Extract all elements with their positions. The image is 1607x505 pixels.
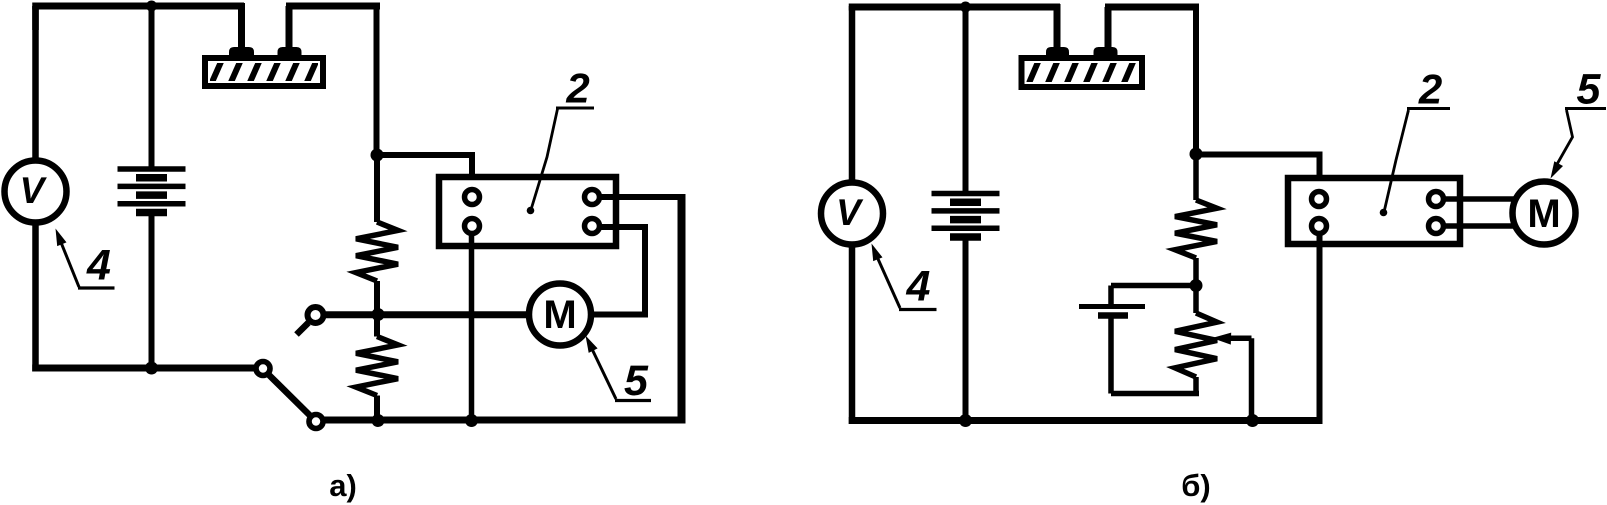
- svg-text:а): а): [329, 468, 357, 503]
- motor M (5), right: [1513, 182, 1576, 245]
- resistor R2 (lower, left circuit): [356, 315, 398, 421]
- junction: node at main vertical top: [371, 149, 384, 162]
- terminal block 2 (left circuit): [439, 177, 616, 246]
- label 5 leader with arrow (right): [1551, 109, 1607, 179]
- svg-text:4: 4: [86, 242, 111, 290]
- wire: block 2 lower-left pin to bottom bus (b): [1317, 232, 1323, 421]
- resistor R1 (upper, left circuit): [356, 155, 398, 315]
- wires: block 2 right pins to motor (b): [1442, 199, 1517, 226]
- junction: wiper wire on bottom bus: [1246, 414, 1259, 427]
- junction: R2 bottom on bottom bus: [372, 414, 385, 427]
- voltmeter PV (4), right: [821, 6, 883, 424]
- label 2 leader (left): [527, 108, 594, 214]
- junction: top bus / battery (right): [960, 2, 971, 13]
- label 2 leader (right): [1380, 109, 1450, 217]
- junction: bottom bus / battery (right): [959, 414, 972, 427]
- voltmeter PV (4), left: [5, 6, 67, 372]
- heating element 1 (hatched block), left: [205, 3, 323, 89]
- battery GB (left): [118, 6, 186, 368]
- wire: bottom-right bus a: [324, 417, 686, 424]
- wire: block 2 lower-left pin down to bottom bus: [469, 232, 475, 420]
- wire: top bus b: [849, 4, 1060, 11]
- wire: element right terminal to main vertical: [286, 6, 380, 155]
- svg-text:V: V: [836, 192, 864, 233]
- wire: switch upper contact to motor: [326, 311, 529, 318]
- resistor R (right circuit): [1175, 154, 1217, 286]
- switch SA: upper contact with lever stub: [297, 307, 324, 335]
- svg-text:4: 4: [906, 263, 931, 311]
- label 4 leader with arrow (right): [872, 244, 937, 310]
- svg-text:M: M: [543, 293, 576, 337]
- svg-text:V: V: [20, 170, 48, 211]
- battery G2 (bias cell, right circuit): [1079, 286, 1199, 394]
- switch SA: common contact and blade: [256, 362, 323, 429]
- potentiometer wiper arrow: [1212, 333, 1252, 421]
- motor M (5), left: [529, 284, 591, 346]
- junction: bottom-left / battery: [145, 362, 158, 375]
- label 4 leader with arrow (left): [56, 229, 115, 289]
- wire: bottom bus b: [849, 417, 1323, 424]
- svg-text:5: 5: [1577, 66, 1602, 114]
- svg-text:M: M: [1527, 192, 1560, 236]
- junction: pin wire on bottom bus: [465, 414, 478, 427]
- svg-text:2: 2: [565, 65, 589, 112]
- junction: node at main vertical top (b): [1190, 148, 1203, 161]
- junction: R / potentiometer node: [1190, 279, 1203, 292]
- junction: top bus / battery: [146, 1, 157, 12]
- potentiometer RP (right circuit): [1175, 286, 1217, 394]
- wire: top bus a: [32, 6, 244, 30]
- battery GB (right): [932, 6, 1000, 421]
- svg-text:2: 2: [1418, 66, 1442, 113]
- heating element 1 (hatched block), right: [1022, 4, 1143, 90]
- label 5 leader with arrow (left): [586, 336, 652, 401]
- wire: node to block 2 upper-left pin: [377, 152, 475, 190]
- svg-text:5: 5: [624, 357, 649, 405]
- wire: block 2 upper-right pin to right bus: [598, 194, 685, 424]
- wire: element right terminal to main vertical (b): [1105, 7, 1199, 154]
- wire: bottom-left a: [32, 365, 254, 372]
- junction: R1/R2 node with motor wire: [372, 308, 385, 321]
- terminal block 2 (right circuit): [1288, 178, 1460, 244]
- wire: motor to block 2 lower-right pin: [591, 227, 648, 318]
- svg-text:б): б): [1181, 468, 1210, 503]
- wire: node to block 2 upper-left pin (b): [1196, 152, 1323, 193]
